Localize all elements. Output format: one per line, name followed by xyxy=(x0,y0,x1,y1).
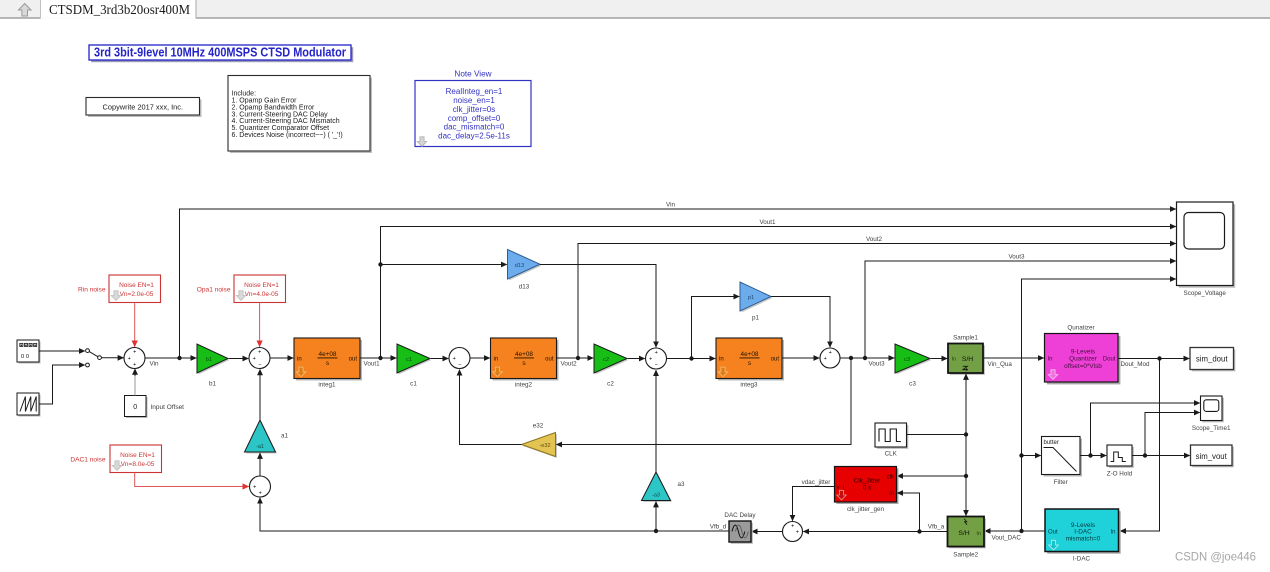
source block: sawtooth generator xyxy=(17,393,41,417)
svg-text:+: + xyxy=(791,523,794,529)
svg-text:Vin: Vin xyxy=(150,361,159,368)
svg-text:Dout_Mod: Dout_Mod xyxy=(1121,361,1151,368)
svg-text:comp_offset=0: comp_offset=0 xyxy=(448,114,501,123)
svg-text:DAC Delay: DAC Delay xyxy=(724,512,756,519)
wire: Input Offset to S1 xyxy=(134,369,136,396)
svg-text:in: in xyxy=(297,356,302,362)
svg-text:Vfb_d: Vfb_d xyxy=(710,524,727,531)
noise source Opa1 noise xyxy=(197,275,286,303)
svg-text:4. Current-Steering DAC Mismat: 4. Current-Steering DAC Mismatch xyxy=(232,118,340,125)
svg-text:clk_jitter=0s: clk_jitter=0s xyxy=(453,105,495,114)
svg-text:Noise EN=1: Noise EN=1 xyxy=(244,282,279,289)
svg-text:Qunatizer: Qunatizer xyxy=(1067,325,1094,332)
svg-text:in: in xyxy=(494,356,499,362)
svg-text:Dout: Dout xyxy=(1103,357,1116,363)
wire: integ3 out to S5 xyxy=(782,357,819,359)
svg-text:integ3: integ3 xyxy=(740,381,758,388)
gain b1 xyxy=(197,344,230,388)
svg-text:e32: e32 xyxy=(533,422,544,429)
wire: Vout1 tap to d13 xyxy=(381,264,507,266)
svg-text:Opa1 noise: Opa1 noise xyxy=(197,287,231,294)
svg-text:c1: c1 xyxy=(406,357,412,363)
svg-text:Vout1: Vout1 xyxy=(759,219,776,226)
sum junction S4 (before integ3) xyxy=(646,348,667,369)
svg-text:mismatch=0: mismatch=0 xyxy=(1066,535,1101,542)
svg-text:p1: p1 xyxy=(752,314,760,321)
svg-text:out: out xyxy=(771,356,780,362)
svg-text:c2: c2 xyxy=(607,381,614,388)
sum junction S7 (jitter + Vfb_a) xyxy=(783,522,803,542)
wire: bottom feedback tap up to a3 xyxy=(654,502,658,534)
wire: Z-O Hold to sim_vout xyxy=(1132,453,1190,457)
svg-text:CLK: CLK xyxy=(885,450,898,457)
svg-text:Vn=4.0e-05: Vn=4.0e-05 xyxy=(245,291,279,298)
wire: b1 to S2 xyxy=(229,358,248,360)
svg-text:S/H: S/H xyxy=(958,530,969,537)
sum junction S3 (before integ2) xyxy=(449,348,470,369)
svg-text:Input Offset: Input Offset xyxy=(151,404,185,411)
svg-text:out: out xyxy=(545,356,554,362)
outport sim_dout xyxy=(1190,348,1235,372)
wire: Vin branch to scope xyxy=(180,201,1176,358)
svg-text:Noise EN=1: Noise EN=1 xyxy=(119,282,154,289)
gain a1 (feedback -a1) xyxy=(245,420,289,454)
gain c1 xyxy=(397,344,432,388)
svg-text:clk: clk xyxy=(887,475,895,481)
S/H block Sample2 xyxy=(948,517,986,559)
svg-text:RealInteg_en=1: RealInteg_en=1 xyxy=(446,87,503,96)
wire: Filter out branch to Scope_Time1 input 1 xyxy=(1091,403,1200,456)
svg-text:in: in xyxy=(889,491,894,497)
tab title text xyxy=(49,2,190,17)
wire: switch to sum Vin xyxy=(101,357,123,359)
svg-text:+: + xyxy=(655,350,658,356)
wire: p1 to S5 top xyxy=(771,297,830,348)
svg-text:Vout2: Vout2 xyxy=(561,361,578,368)
svg-text:p1: p1 xyxy=(748,295,754,301)
svg-text:a3: a3 xyxy=(678,481,686,488)
svg-text:−: − xyxy=(258,362,261,368)
wire: S7 to DAC Delay xyxy=(752,531,783,533)
wire: e32 to S3 bottom xyxy=(460,370,522,445)
wire: Vout3 tap down to e32 xyxy=(556,358,851,445)
scope Scope_Voltage xyxy=(1177,202,1236,297)
outport sim_vout xyxy=(1191,445,1234,467)
svg-text:d13: d13 xyxy=(519,283,530,290)
up-to-parent arrow icon xyxy=(18,4,31,17)
wire: S4 to integ3 xyxy=(667,356,716,360)
constant block Input Offset xyxy=(125,396,185,419)
svg-text:0 s: 0 s xyxy=(863,484,872,491)
gain c2 xyxy=(594,344,629,388)
svg-text:4e+08: 4e+08 xyxy=(741,351,759,358)
wire: Vfb_d bottom feedback line to S6 xyxy=(260,498,729,531)
svg-text:vdac_jitter: vdac_jitter xyxy=(802,479,831,486)
gain c3 xyxy=(895,344,932,388)
svg-text:Filter: Filter xyxy=(1054,479,1068,486)
svg-text:Sample2: Sample2 xyxy=(953,551,978,558)
watermark xyxy=(1175,550,1256,564)
svg-text:Vn=2.0e-05: Vn=2.0e-05 xyxy=(120,291,154,298)
svg-text:dac_delay=2.5e-11s: dac_delay=2.5e-11s xyxy=(438,131,510,140)
svg-text:6. Devices Noise (incorrect~~): 6. Devices Noise (incorrect~~) ( '_'!) xyxy=(232,132,343,139)
svg-text:d13: d13 xyxy=(515,263,525,269)
noise source Rin noise xyxy=(78,275,161,303)
integrator integ1 xyxy=(294,338,362,388)
wire: c3 to Sample1 xyxy=(931,358,947,360)
S/H block Sample1 xyxy=(948,334,985,374)
wire: Vout_DAC tap to Filter xyxy=(1022,455,1041,457)
wire: sawtooth source to switch xyxy=(39,365,85,404)
wire: Vout_DAC branch up to scope xyxy=(1019,279,1176,531)
gain d13 xyxy=(508,250,542,291)
sum junction S6 (DAC noise) xyxy=(250,476,271,497)
svg-text:+: + xyxy=(253,356,256,362)
svg-text:c2: c2 xyxy=(603,357,609,363)
svg-text:Vin_Qua: Vin_Qua xyxy=(988,361,1013,368)
svg-text:S/H: S/H xyxy=(962,356,973,363)
svg-text:Vout3: Vout3 xyxy=(1008,253,1025,260)
gain a3 (feedback -a3) xyxy=(642,472,686,502)
svg-text:Z-O Hold: Z-O Hold xyxy=(1107,470,1133,477)
wire: Vout2 branch to scope xyxy=(578,236,1176,358)
svg-text:+: + xyxy=(253,484,256,490)
svg-text:+: + xyxy=(133,362,136,368)
wire: S6 to a1 xyxy=(259,453,261,476)
wire: S1 out (Vin net) xyxy=(145,356,196,368)
svg-text:+: + xyxy=(829,350,832,356)
gain e32 (resonator feedback) xyxy=(522,422,558,458)
svg-text:In: In xyxy=(1110,530,1115,536)
svg-text:noise_en=1: noise_en=1 xyxy=(453,96,495,105)
wire: Sample2 out to S7 (Vfb_a net) xyxy=(803,524,947,534)
subsystem clk_jitter_gen xyxy=(835,467,899,513)
pulse generator CLK xyxy=(875,423,908,457)
svg-text:s: s xyxy=(748,360,751,367)
wire: Opa1 noise to S2 (red) xyxy=(259,303,261,347)
manual switch xyxy=(86,349,102,367)
svg-text:clk_jitter_gen: clk_jitter_gen xyxy=(847,506,885,513)
wire: I-DAC out to Sample2 (Vout_DAC net) xyxy=(985,529,1045,542)
svg-text:In: In xyxy=(1048,357,1053,363)
wire: integ1 out (Vout1 net) to c1 xyxy=(360,356,396,368)
quantizer block xyxy=(1045,325,1121,385)
wire: c2 to S4 xyxy=(628,358,645,360)
wire: Vfb_a tap to clk_jitter_gen in port xyxy=(897,493,919,532)
wire: Z-O Hold branch to Scope_Time1 input 2 xyxy=(1145,413,1200,456)
svg-text:Quantizer: Quantizer xyxy=(1069,356,1098,363)
svg-text:3. Current-Steering DAC Delay: 3. Current-Steering DAC Delay xyxy=(232,111,329,118)
svg-text:-a3: -a3 xyxy=(652,493,660,499)
svg-text:Vout1: Vout1 xyxy=(364,361,381,368)
wire: clock net down to Sample2 trigger xyxy=(965,435,967,516)
svg-text:integ1: integ1 xyxy=(318,381,336,388)
svg-text:Vout_DAC: Vout_DAC xyxy=(992,535,1022,542)
wire: clock tap to clk_jitter_gen clk port xyxy=(897,475,966,477)
wire: Sample1 to Quantizer (Vin_Qua net) xyxy=(983,358,1044,368)
svg-text:+: + xyxy=(133,349,136,355)
svg-text:-a1: -a1 xyxy=(256,444,264,450)
svg-text:I-DAC: I-DAC xyxy=(1073,555,1091,562)
transport delay DAC Delay xyxy=(724,512,756,544)
svg-text:CSDN @joe446: CSDN @joe446 xyxy=(1175,550,1256,564)
sum junction S2 (after b1) xyxy=(249,348,270,369)
svg-text:c3: c3 xyxy=(904,357,910,363)
svg-text:−: − xyxy=(458,362,461,368)
svg-text:3rd 3bit-9level 10MHz 400MSPS: 3rd 3bit-9level 10MHz 400MSPS CTSD Modul… xyxy=(94,45,346,60)
svg-text:2. Opamp Bandwidth Error: 2. Opamp Bandwidth Error xyxy=(232,104,316,111)
svg-text:Scope_Time1: Scope_Time1 xyxy=(1192,425,1231,432)
wire: stair source to switch xyxy=(39,350,85,352)
svg-text:+: + xyxy=(258,349,261,355)
svg-text:sim_dout: sim_dout xyxy=(1196,355,1228,364)
svg-text:c1: c1 xyxy=(410,381,417,388)
wire: S3 to integ2 xyxy=(470,357,490,359)
svg-text:butter: butter xyxy=(1044,440,1059,446)
svg-text:b1: b1 xyxy=(209,381,217,388)
wire: d13 to S4 top xyxy=(540,265,656,348)
svg-text:Vout3: Vout3 xyxy=(869,361,886,368)
svg-text:+: + xyxy=(824,356,827,362)
wire: S4 tap up to p1 xyxy=(692,297,740,359)
svg-text:Vn=8.0e-05: Vn=8.0e-05 xyxy=(121,461,155,468)
wire: Vout1 branch to scope xyxy=(378,219,1176,358)
svg-text:0 0: 0 0 xyxy=(21,354,29,360)
svg-text:Clk_Jitter: Clk_Jitter xyxy=(854,477,882,484)
svg-text:+: + xyxy=(796,529,799,535)
wire: Quantizer to sim_dout (Dout_Mod net) xyxy=(1118,356,1189,368)
svg-text:In: In xyxy=(952,357,957,363)
svg-text:Scope_Voltage: Scope_Voltage xyxy=(1184,290,1227,297)
svg-text:+: + xyxy=(259,490,262,496)
wire: clk_jitter v_j to S7 (vdac_jitter net) xyxy=(793,479,835,521)
source block: stair sequence xyxy=(17,340,41,364)
svg-text:Sample1: Sample1 xyxy=(953,334,978,341)
copywrite annotation box xyxy=(86,98,202,118)
svg-text:Vfb_a: Vfb_a xyxy=(928,524,945,531)
wire: Vout3 branch to scope xyxy=(865,253,1176,358)
DAC block I-DAC xyxy=(1045,509,1121,562)
noise source DAC1 noise xyxy=(70,445,161,473)
wire: clock net up to Sample1 trigger xyxy=(965,374,967,435)
svg-text:-e32: -e32 xyxy=(539,443,550,449)
sum junction S1 (Vin) xyxy=(124,348,145,369)
wire: a3 to S4 bottom xyxy=(655,370,657,472)
Note View annotation box xyxy=(415,69,531,146)
integrator integ2 xyxy=(491,338,559,388)
include list annotation box xyxy=(228,76,372,154)
wire: a1 to S2 bottom xyxy=(259,369,261,420)
svg-text:s: s xyxy=(522,360,525,367)
svg-text:dac_mismatch=0: dac_mismatch=0 xyxy=(444,123,505,132)
svg-text:out: out xyxy=(349,356,358,362)
integrator integ3 xyxy=(716,338,784,388)
scope Scope_Time1 xyxy=(1192,396,1231,432)
svg-text:integ2: integ2 xyxy=(515,381,533,388)
svg-text:+: + xyxy=(453,356,456,362)
gain p1 xyxy=(740,282,773,321)
wire: Filter to Z-O Hold xyxy=(1080,453,1106,457)
wire: integ2 out (Vout2 net) to c2 xyxy=(557,356,594,368)
svg-text:In: In xyxy=(976,531,981,537)
svg-text:1. Opamp Gain Error: 1. Opamp Gain Error xyxy=(232,97,298,104)
filter block (butter) xyxy=(1042,437,1083,486)
sum junction S5 (after integ3) xyxy=(820,348,840,368)
wire: c1 to S3 xyxy=(431,358,448,360)
svg-text:DAC1 noise: DAC1 noise xyxy=(70,457,106,464)
svg-text:s: s xyxy=(326,360,329,367)
svg-text:0: 0 xyxy=(133,404,137,411)
zero-order hold block xyxy=(1107,445,1134,477)
svg-text:Include:: Include: xyxy=(232,90,257,97)
svg-text:−: − xyxy=(655,362,658,368)
wire: CLK to clock net xyxy=(907,432,969,478)
svg-text:Vin: Vin xyxy=(666,201,675,208)
svg-text:Note View: Note View xyxy=(454,69,491,78)
svg-text:5. Quantizer Comparator Offset: 5. Quantizer Comparator Offset xyxy=(232,125,330,132)
svg-text:sim_vout: sim_vout xyxy=(1196,452,1228,461)
wire: DAC1 noise to S6 (red) xyxy=(135,473,249,487)
title annotation box xyxy=(89,45,353,63)
svg-text:in: in xyxy=(719,356,724,362)
svg-text:9-Levels: 9-Levels xyxy=(1071,349,1095,356)
svg-text:offset=0*Vlsb: offset=0*Vlsb xyxy=(1064,363,1102,370)
svg-text:Noise EN=1: Noise EN=1 xyxy=(120,452,155,459)
svg-text:Vout2: Vout2 xyxy=(866,236,883,243)
svg-text:Copywrite 2017 xxx, Inc.: Copywrite 2017 xxx, Inc. xyxy=(103,102,184,111)
wire: S2 to integ1 xyxy=(270,357,293,359)
svg-text:Out: Out xyxy=(1048,530,1058,536)
svg-text:a1: a1 xyxy=(281,433,289,440)
svg-text:b1: b1 xyxy=(206,357,212,363)
wire: Rin noise to S1 (red) xyxy=(134,303,136,347)
wire: S5 out (Vout3 net) to c3 xyxy=(840,356,894,368)
svg-text:c3: c3 xyxy=(909,381,916,388)
wire: DAC Delay out (Vfb_d net) label xyxy=(710,524,727,531)
window tab bar xyxy=(0,0,1270,19)
svg-text:Rin noise: Rin noise xyxy=(78,287,106,294)
wire: Dout_Mod branch down to I-DAC In xyxy=(1120,359,1159,532)
svg-text:CTSDM_3rd3b20osr400M: CTSDM_3rd3b20osr400M xyxy=(49,2,190,17)
svg-text:+: + xyxy=(128,356,131,362)
svg-text:4e+08: 4e+08 xyxy=(319,351,337,358)
svg-text:+: + xyxy=(649,356,652,362)
svg-text:4e+08: 4e+08 xyxy=(515,351,533,358)
